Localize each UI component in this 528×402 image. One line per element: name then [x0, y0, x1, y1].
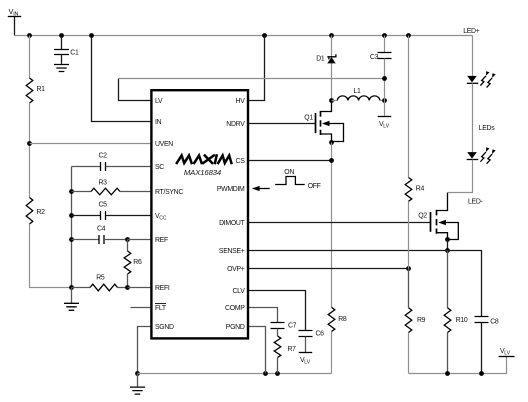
svg-text:ON: ON	[284, 169, 294, 176]
wire	[408, 36, 410, 178]
svg-text:DIMOUT: DIMOUT	[219, 220, 245, 227]
wire	[448, 160, 473, 193]
svg-text:LEDs: LEDs	[479, 125, 496, 132]
svg-text:C7: C7	[288, 323, 297, 330]
capacitor C3	[384, 36, 386, 53]
svg-text:PWMDIM: PWMDIM	[217, 186, 245, 193]
wire	[409, 357, 507, 374]
resistor R5	[72, 287, 91, 289]
resistor R7	[277, 329, 279, 337]
svg-text:D1: D1	[316, 55, 325, 62]
wire	[248, 251, 482, 317]
transistor Q2	[430, 212, 432, 232]
svg-text:HV: HV	[236, 98, 246, 105]
junction	[406, 33, 411, 38]
svg-text:Q1: Q1	[304, 115, 313, 122]
ground	[64, 303, 79, 310]
wire	[408, 201, 410, 268]
junction	[125, 285, 130, 290]
junction	[27, 141, 32, 146]
junction	[329, 158, 334, 163]
wire	[15, 35, 473, 37]
terminal VLV	[499, 356, 515, 358]
junction	[27, 33, 32, 38]
junction	[445, 248, 450, 253]
wire	[138, 373, 332, 375]
LED D3	[467, 152, 477, 159]
svg-text:C1: C1	[70, 50, 79, 57]
svg-text:C2: C2	[99, 153, 108, 160]
diode D1	[331, 36, 333, 57]
svg-text:UVEN: UVEN	[155, 141, 173, 148]
svg-text:CLV: CLV	[233, 288, 246, 295]
svg-text:COMP: COMP	[225, 305, 245, 312]
junction	[59, 33, 64, 38]
junction	[382, 98, 387, 103]
wire	[472, 83, 474, 152]
junction	[445, 237, 450, 242]
resistor R8	[328, 307, 335, 331]
wire	[131, 307, 152, 309]
svg-text:CS: CS	[236, 158, 246, 165]
capacitor C8	[475, 317, 489, 323]
junction	[406, 266, 411, 271]
svg-text:LV: LV	[155, 98, 163, 105]
wire	[447, 240, 449, 251]
LED D2	[467, 76, 477, 83]
junction	[329, 98, 334, 103]
svg-text:C8: C8	[490, 318, 499, 325]
svg-text:R6: R6	[133, 259, 142, 266]
wire	[30, 224, 72, 288]
terminal VLV	[378, 116, 392, 118]
wire	[248, 36, 265, 101]
junction	[89, 33, 94, 38]
svg-text:LED-: LED-	[468, 199, 483, 206]
junction	[69, 237, 74, 242]
wire	[128, 287, 152, 289]
svg-text:IN: IN	[155, 119, 162, 126]
svg-text:RT/SYNC: RT/SYNC	[155, 189, 183, 196]
junction	[125, 237, 130, 242]
svg-text:SENSE+: SENSE+	[219, 248, 245, 255]
wire	[71, 167, 73, 288]
resistor R1	[26, 78, 33, 103]
resistor R4	[405, 178, 412, 202]
wire	[137, 374, 139, 387]
resistor R2	[26, 198, 33, 225]
wire	[472, 36, 474, 76]
wire	[248, 160, 332, 162]
junction	[329, 140, 334, 145]
node ON/OFF pulse	[275, 177, 305, 185]
wire	[331, 143, 333, 308]
svg-text:R8: R8	[338, 316, 347, 323]
transistor Q1	[315, 113, 317, 133]
svg-text:Q2: Q2	[418, 212, 427, 219]
wire	[71, 288, 73, 303]
svg-text:R3: R3	[99, 179, 108, 186]
op-amp U1 MAX16834	[151, 90, 248, 338]
ground	[130, 387, 145, 394]
capacitor C6	[248, 291, 306, 331]
svg-text:R5: R5	[96, 274, 105, 281]
wire	[29, 103, 31, 198]
junction	[135, 371, 140, 376]
junction	[275, 371, 280, 376]
resistor R6	[127, 240, 129, 252]
wire	[128, 239, 152, 241]
svg-text:PGND: PGND	[226, 324, 245, 331]
svg-text:NDRV: NDRV	[226, 121, 245, 128]
junction	[69, 213, 74, 218]
svg-text:C3: C3	[370, 54, 379, 61]
junction	[69, 189, 74, 194]
wire	[30, 143, 152, 145]
svg-text:R7: R7	[288, 346, 297, 353]
junction	[329, 33, 334, 38]
svg-text:R10: R10	[456, 317, 468, 324]
svg-text:LED+: LED+	[463, 28, 480, 35]
wire	[248, 123, 316, 125]
resistor R3	[72, 191, 92, 193]
svg-text:REF: REF	[155, 237, 168, 244]
inductor L1	[337, 96, 380, 101]
wire	[248, 327, 266, 374]
wire	[259, 188, 270, 190]
svg-text:L1: L1	[354, 88, 362, 95]
svg-text:MAX16834: MAX16834	[184, 168, 221, 177]
wire	[29, 36, 31, 79]
wire	[138, 327, 152, 374]
capacitor C7	[248, 308, 278, 323]
resistor R10	[447, 251, 449, 308]
svg-text:SGND: SGND	[155, 324, 174, 331]
capacitor C4	[72, 239, 100, 241]
wire	[248, 268, 409, 270]
svg-text:R1: R1	[37, 86, 46, 93]
svg-text:REFI: REFI	[155, 285, 170, 292]
svg-text:C6: C6	[316, 331, 325, 338]
junction	[382, 33, 387, 38]
svg-text:C5: C5	[99, 202, 108, 209]
svg-text:SC: SC	[155, 164, 164, 171]
wire	[119, 79, 152, 101]
svg-text:C4: C4	[97, 226, 106, 233]
resistor R9	[408, 269, 410, 308]
ground	[54, 65, 69, 72]
junction	[262, 33, 267, 38]
capacitor C1	[61, 36, 63, 50]
junction	[69, 285, 74, 290]
terminal VLV	[299, 352, 313, 354]
junction	[382, 76, 387, 81]
svg-text:R9: R9	[417, 317, 426, 324]
svg-text:OFF: OFF	[308, 183, 321, 190]
junction	[479, 371, 484, 376]
junction	[445, 371, 450, 376]
capacitor C5	[72, 215, 101, 217]
junction	[263, 371, 268, 376]
svg-text:OVP+: OVP+	[227, 266, 245, 273]
svg-text:R4: R4	[416, 186, 425, 193]
capacitor C2	[72, 166, 101, 168]
svg-text:R2: R2	[37, 209, 46, 216]
svg-text:FLT: FLT	[155, 305, 167, 312]
wire	[92, 36, 152, 122]
wire	[248, 222, 431, 224]
